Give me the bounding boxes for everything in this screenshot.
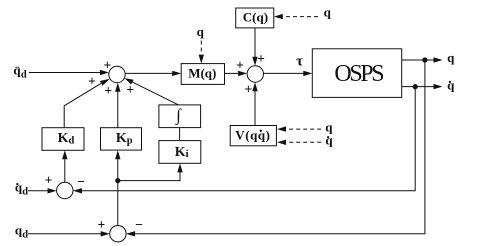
block Kd xyxy=(42,128,84,151)
arrowhead integrator diagonal into sum1 xyxy=(124,78,133,84)
wire Kd up then diagonal to sum1 xyxy=(64,83,101,127)
arrowhead Kp into sum1 bottom xyxy=(115,83,120,92)
wire e from sum4 up to Kp xyxy=(117,159,119,225)
summing junction S2 xyxy=(247,66,263,82)
wire V(qqdot) up to sum2 xyxy=(254,91,256,126)
svg-text:+: + xyxy=(236,57,244,72)
arrowhead dashed q into V right xyxy=(277,126,286,131)
block V(qqdot) xyxy=(230,126,276,146)
svg-text:C(q): C(q) xyxy=(243,9,268,24)
wire qdot feedback to sum3 xyxy=(82,87,415,191)
wire Kp up to sum1 xyxy=(117,91,119,128)
wire OSPS to q output xyxy=(402,59,434,61)
svg-text:−: − xyxy=(135,217,143,232)
block Ki xyxy=(159,141,201,164)
svg-text:−: − xyxy=(77,174,85,189)
arrowhead qdot output xyxy=(434,84,443,89)
summing junction S1 xyxy=(109,66,125,82)
node dot qdot feedback xyxy=(413,84,418,89)
svg-text:q: q xyxy=(324,5,332,20)
svg-text:+: + xyxy=(104,83,112,98)
arrowhead C(q) into sum2 top xyxy=(252,57,257,66)
arrowhead Kd diagonal into sum1 xyxy=(100,79,110,86)
svg-text:q: q xyxy=(325,133,333,148)
arrowhead into Kd bottom xyxy=(62,150,67,159)
arrowhead feedback into sum3 right xyxy=(73,188,82,193)
svg-text:q: q xyxy=(197,24,205,39)
svg-text:+: + xyxy=(88,74,96,89)
svg-text:+: + xyxy=(126,82,134,97)
svg-text:d: d xyxy=(22,186,28,197)
wire sum1 to M(q) xyxy=(125,72,173,74)
arrowhead M(q) into sum2 xyxy=(238,71,247,76)
svg-text:+: + xyxy=(244,81,252,96)
wire integrator diagonal to sum1 xyxy=(132,82,178,105)
wire q feedback to sum4 xyxy=(135,60,425,234)
wire M(q) to sum2 xyxy=(225,72,239,74)
wire integrator to Ki connector xyxy=(179,128,181,141)
svg-text:τ: τ xyxy=(296,53,303,69)
arrowhead feedback into sum4 right xyxy=(126,231,135,236)
arrowhead q_d into sum4 xyxy=(101,231,110,236)
block integrator xyxy=(159,105,201,128)
svg-text:+: + xyxy=(257,51,265,66)
svg-text:OSPS: OSPS xyxy=(334,61,383,87)
wire C(q) down to sum2 xyxy=(254,28,256,57)
wire q_d to sum4 xyxy=(28,233,101,235)
svg-text:+: + xyxy=(103,58,111,73)
svg-text:+: + xyxy=(45,173,53,188)
wire dashed q to V(qqdot) xyxy=(286,128,321,130)
svg-text:q: q xyxy=(447,77,455,92)
block M(q) xyxy=(181,64,224,85)
arrowhead dashed qdot into V right xyxy=(277,140,286,145)
node dot e branch xyxy=(115,178,120,183)
summing junction S3 xyxy=(57,182,73,198)
wire dashed q to M(q) xyxy=(200,41,202,56)
arrowhead tau into OSPS xyxy=(303,71,312,76)
wire sum3 up to Kd xyxy=(64,159,66,182)
arrowhead V into sum2 bottom xyxy=(252,82,257,91)
block OSPS xyxy=(312,49,401,98)
wire OSPS to qdot output xyxy=(402,86,434,88)
arrowhead qdot_d into sum3 xyxy=(48,188,57,193)
arrowhead q output xyxy=(434,57,443,62)
wire dashed q to C(q) xyxy=(283,16,318,18)
block Kp xyxy=(101,128,142,150)
wire dashed qdot to V(qqdot) xyxy=(286,141,321,143)
svg-text:d: d xyxy=(21,69,27,80)
arrowhead dashed q into C(q) right xyxy=(274,14,283,19)
svg-text:d: d xyxy=(22,229,28,240)
wire branch from e node to Ki xyxy=(118,172,180,180)
node dot q feedback xyxy=(422,57,427,62)
svg-text:M(q): M(q) xyxy=(188,66,216,81)
svg-text:+: + xyxy=(97,217,105,232)
arrowhead qdd_d into sum1 xyxy=(100,70,109,75)
arrowhead branch into Ki bottom xyxy=(177,163,182,172)
arrowhead e into Kp bottom xyxy=(115,150,120,159)
arrowhead dashed q into M(q) top xyxy=(199,55,204,64)
wire qdot_d to sum3 xyxy=(28,190,48,192)
svg-text:V(qq): V(qq) xyxy=(235,127,270,142)
svg-text:q: q xyxy=(447,50,455,65)
arrowhead sum1 into M(q) xyxy=(172,71,181,76)
block C(q) xyxy=(236,8,274,28)
wire sum2 to OSPS (tau) xyxy=(264,72,304,74)
summing junction S4 xyxy=(110,226,126,242)
wire qdd_d to sum1 xyxy=(29,72,100,74)
